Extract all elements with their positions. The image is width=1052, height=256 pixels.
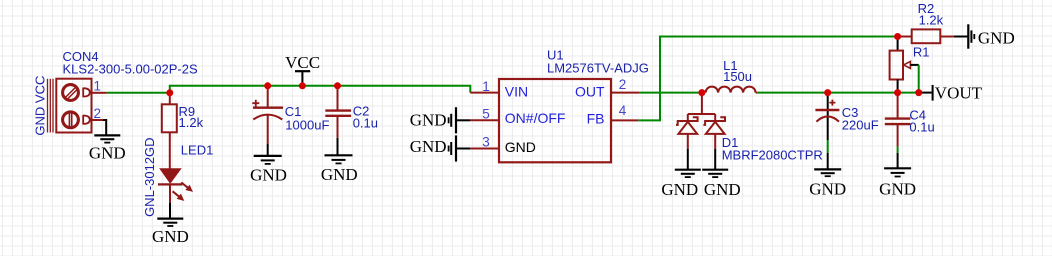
svg-text:5: 5 bbox=[482, 107, 490, 122]
svg-text:GND: GND bbox=[809, 180, 846, 199]
capacitor C1 bbox=[267, 86, 269, 108]
svg-text:LED1: LED1 bbox=[181, 142, 214, 157]
junction node wiper / VOUT bbox=[915, 89, 922, 96]
svg-text:GND: GND bbox=[978, 28, 1015, 47]
junction node C2 bbox=[334, 82, 341, 89]
wire FB up and over to R1/R2 bbox=[638, 37, 897, 121]
svg-text:LM2576TV-ADJG: LM2576TV-ADJG bbox=[547, 61, 649, 76]
junction node C1 bbox=[264, 82, 271, 89]
potentiometer R1 bbox=[897, 37, 899, 51]
svg-text:VCC: VCC bbox=[285, 53, 320, 72]
svg-text:GND: GND bbox=[704, 180, 741, 199]
ground at U1 pin 3 bbox=[449, 135, 471, 161]
wire R2 to ground bbox=[954, 36, 968, 38]
connector CON4 body bbox=[48, 79, 92, 133]
svg-text:GND: GND bbox=[89, 144, 126, 163]
svg-text:1: 1 bbox=[94, 79, 102, 94]
ground under D1 right bbox=[702, 170, 728, 177]
svg-text:GND: GND bbox=[410, 110, 447, 129]
svg-text:220uF: 220uF bbox=[842, 118, 879, 133]
svg-text:GND: GND bbox=[321, 165, 358, 184]
svg-text:MBRF2080CTPR: MBRF2080CTPR bbox=[722, 148, 823, 163]
capacitor C3 bbox=[827, 93, 829, 140]
wire pin2 to ground bbox=[103, 120, 106, 135]
U1 pin 4 FB stub bbox=[611, 119, 638, 121]
wire OUT to diode node bbox=[640, 92, 702, 94]
svg-text:FB: FB bbox=[587, 110, 605, 126]
ground under LED1 bbox=[157, 219, 183, 226]
CON4 screw terminal 2 bbox=[63, 112, 90, 128]
capacitor C4 bbox=[897, 93, 899, 119]
LED1 emission arrows bbox=[173, 182, 193, 200]
wire L1 to output bbox=[757, 92, 919, 94]
svg-text:KLS2-300-5.00-02P-2S: KLS2-300-5.00-02P-2S bbox=[63, 62, 198, 77]
svg-text:R1: R1 bbox=[913, 44, 930, 59]
svg-text:GND: GND bbox=[250, 165, 287, 184]
svg-text:0.1u: 0.1u bbox=[909, 119, 934, 134]
svg-text:ON#/OFF: ON#/OFF bbox=[505, 110, 566, 126]
U1 pin 5 ON#/OFF stub bbox=[470, 119, 499, 121]
wire R1 wiper down to output bbox=[918, 65, 920, 93]
ground under C3 bbox=[814, 169, 841, 176]
U1 pin 3 GND stub bbox=[470, 148, 499, 150]
junction node R1 top bbox=[894, 33, 901, 40]
junction node R1 bottom / C4 bbox=[894, 89, 901, 96]
svg-text:1.2k: 1.2k bbox=[179, 115, 204, 130]
svg-text:4: 4 bbox=[619, 103, 627, 118]
svg-text:150u: 150u bbox=[723, 69, 752, 84]
ground at U1 pin 5 bbox=[449, 107, 471, 133]
svg-text:OUT: OUT bbox=[575, 83, 605, 99]
svg-text:2: 2 bbox=[619, 77, 627, 92]
capacitor C2 bbox=[337, 86, 339, 111]
svg-text:GND VCC: GND VCC bbox=[33, 76, 48, 136]
wire CON4 pin1 to node bbox=[107, 92, 170, 94]
svg-text:3: 3 bbox=[482, 135, 490, 150]
LED1 diode bbox=[158, 169, 182, 184]
ground under CON4 pin 2 bbox=[94, 135, 120, 142]
CON4 pin 2 stub bbox=[92, 119, 104, 121]
svg-text:GND: GND bbox=[879, 180, 916, 199]
U1 pin 1 VIN stub bbox=[470, 92, 499, 94]
VOUT net flag bbox=[919, 92, 932, 94]
svg-text:1000uF: 1000uF bbox=[285, 118, 329, 133]
CON4 pin 1 stub bbox=[92, 92, 107, 94]
ground under C4 bbox=[884, 168, 911, 176]
VCC power symbol bbox=[295, 71, 310, 86]
svg-text:GND: GND bbox=[505, 139, 536, 155]
junction node R9 bbox=[166, 89, 173, 96]
junction node C3 bbox=[824, 89, 831, 96]
wire C4 to ground bbox=[897, 147, 899, 153]
svg-text:0.1u: 0.1u bbox=[353, 116, 378, 131]
svg-text:1.2k: 1.2k bbox=[919, 13, 944, 28]
svg-text:1: 1 bbox=[482, 79, 490, 94]
ground under D1 left bbox=[675, 170, 701, 177]
ground under C1 bbox=[254, 156, 282, 164]
resistor R9 bbox=[169, 93, 171, 105]
svg-text:VIN: VIN bbox=[505, 83, 528, 99]
svg-text:VOUT: VOUT bbox=[935, 83, 983, 102]
diode D1 pair bbox=[676, 93, 725, 149]
svg-text:2: 2 bbox=[94, 106, 102, 121]
wire C3 to ground bbox=[827, 140, 829, 153]
svg-text:GND: GND bbox=[152, 227, 189, 246]
junction node VCC bbox=[299, 82, 306, 89]
svg-text:GND: GND bbox=[661, 180, 698, 199]
wire C1 to ground bbox=[267, 144, 269, 156]
CON4 screw terminal 1 bbox=[63, 85, 90, 101]
op IC U1 body bbox=[499, 79, 611, 162]
wire LED1 to ground bbox=[169, 184, 171, 202]
ground under C2 bbox=[325, 155, 353, 163]
wire D1 anodes to grounds bbox=[687, 149, 689, 170]
svg-text:GND: GND bbox=[410, 137, 447, 156]
wire node to VIN (input bus) bbox=[170, 86, 471, 93]
wire C2 to ground bbox=[337, 138, 339, 155]
junction node D1/L1 bbox=[698, 89, 705, 96]
inductor L1 bbox=[706, 87, 756, 93]
svg-text:GNL-3012GD: GNL-3012GD bbox=[142, 137, 157, 216]
U1 pin 2 OUT stub bbox=[611, 92, 640, 94]
ground right of R2 bbox=[968, 24, 974, 48]
resistor R2 bbox=[898, 36, 912, 38]
